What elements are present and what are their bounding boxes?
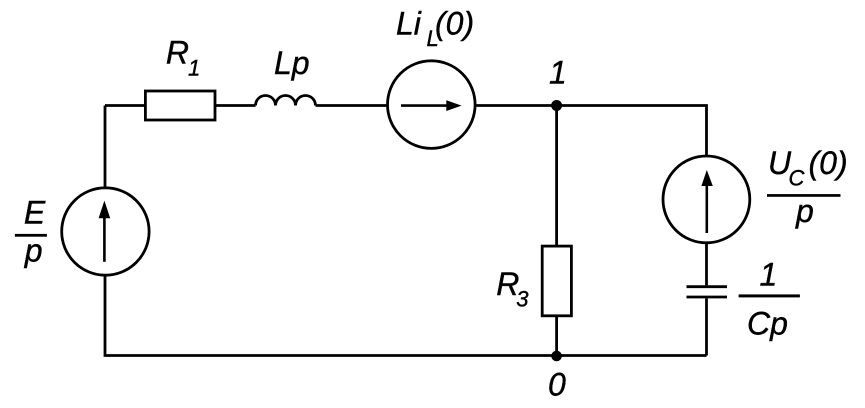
svg-text:1: 1 bbox=[188, 56, 200, 81]
svg-text:p: p bbox=[795, 193, 814, 229]
svg-text:0: 0 bbox=[548, 366, 566, 402]
svg-text:E: E bbox=[24, 195, 46, 231]
svg-text:Cp: Cp bbox=[747, 305, 788, 341]
svg-text:1: 1 bbox=[549, 55, 567, 91]
svg-text:(0): (0) bbox=[809, 145, 848, 181]
svg-text:p: p bbox=[24, 233, 43, 269]
svg-text:Lp: Lp bbox=[274, 45, 310, 81]
svg-text:Li: Li bbox=[396, 6, 422, 42]
svg-text:(0): (0) bbox=[435, 6, 474, 42]
svg-text:R: R bbox=[166, 35, 189, 71]
svg-text:1: 1 bbox=[760, 257, 778, 293]
svg-text:3: 3 bbox=[516, 286, 529, 311]
svg-text:C: C bbox=[789, 166, 805, 191]
